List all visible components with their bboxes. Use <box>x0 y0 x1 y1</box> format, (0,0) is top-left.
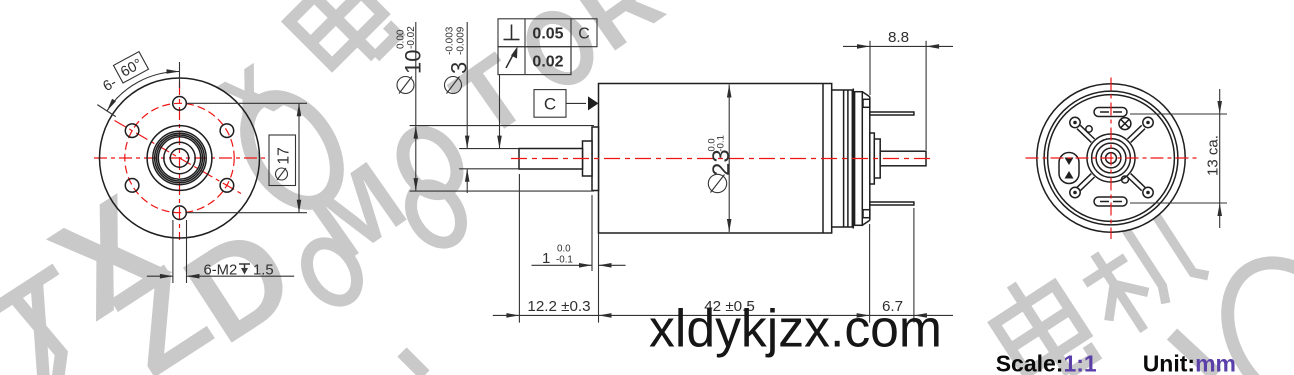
13ca dimension line <box>1219 89 1221 228</box>
hub circle 2 <box>1092 139 1131 178</box>
dia3 dimension line upper <box>466 22 468 149</box>
post NE <box>1143 117 1153 127</box>
dia10 extension top <box>410 125 594 127</box>
post NW <box>1070 117 1080 127</box>
red diagonal line 150deg <box>115 121 245 196</box>
FCF leader <box>499 75 501 149</box>
cap tab top <box>863 99 870 107</box>
top slot <box>1094 108 1127 117</box>
feature control frame <box>498 19 597 75</box>
watermark ring corner bottom-right <box>1202 239 1294 375</box>
watermark bar bottom-right <box>1172 334 1216 375</box>
shaft circle <box>170 149 188 167</box>
dia17 dimension line <box>298 103 300 212</box>
left stadium <box>1059 153 1079 184</box>
dia23 label <box>708 174 726 192</box>
datum leader <box>566 102 586 104</box>
dia17 extension line top <box>187 102 308 104</box>
6-M2 extension line right <box>186 220 188 283</box>
cap band A inner lines <box>843 90 845 227</box>
red bolt circle <box>125 103 234 212</box>
collar rect <box>583 141 593 176</box>
rear boss ring 2 <box>874 139 880 178</box>
svg-text:3: 3 <box>447 62 472 74</box>
svg-text:1.5: 1.5 <box>253 263 274 279</box>
bearing ring outer <box>155 133 205 183</box>
angular dim extension line top <box>179 62 181 88</box>
svg-text:-0.009: -0.009 <box>456 26 467 55</box>
cap band B <box>855 92 863 226</box>
cap thick ring <box>852 89 854 229</box>
bottom dimension line <box>493 314 914 316</box>
flange outer circle <box>100 78 260 238</box>
hole upper-left <box>125 124 139 138</box>
svg-text:-0.02: -0.02 <box>406 26 417 49</box>
svg-text:0.00: 0.00 <box>396 29 407 49</box>
bearing bore circle <box>164 142 195 173</box>
dim 1 extension line <box>591 195 593 271</box>
dia3 extension bottom <box>459 168 519 170</box>
svg-text:1: 1 <box>542 250 550 267</box>
small hole SE <box>1122 176 1129 183</box>
post SE <box>1143 187 1153 197</box>
rim circle 2 <box>1044 91 1178 225</box>
svg-text:23: 23 <box>708 149 735 176</box>
strut NE <box>1077 125 1145 190</box>
hole lower-left <box>125 179 139 193</box>
red crosshair horizontal <box>1026 157 1197 159</box>
hole bottom <box>173 206 187 220</box>
watermark char top (dian-like) <box>273 0 401 82</box>
dim 8.8 extension right <box>925 41 927 150</box>
watermark ring behind dia17 <box>229 81 356 220</box>
dim 1 line left <box>532 264 593 266</box>
bearing ring dark <box>157 135 203 181</box>
terminal pin top <box>870 112 914 115</box>
13ca extension top <box>1130 113 1227 115</box>
hub bore <box>1106 153 1117 164</box>
label 60deg box <box>113 52 148 83</box>
svg-text:-0.1: -0.1 <box>556 255 573 266</box>
svg-text:0.05: 0.05 <box>532 26 563 43</box>
red crosshair vertical <box>1110 78 1112 240</box>
13ca extension bottom <box>1130 202 1227 204</box>
bottom slot <box>1094 197 1127 206</box>
6-M2 dimension line left <box>147 275 173 277</box>
bottom extension line pin tip <box>913 208 915 323</box>
svg-text:C: C <box>544 95 556 114</box>
dim 1 line right <box>599 264 626 266</box>
screw circle <box>1119 118 1131 130</box>
outer circle <box>1037 84 1185 232</box>
datum triangle <box>588 96 599 110</box>
dim 8.8 line <box>843 45 870 47</box>
hub circle 1 <box>1087 134 1135 182</box>
svg-text:10: 10 <box>401 50 426 74</box>
svg-text:13 ca.: 13 ca. <box>1205 135 1222 176</box>
6-M2 extension line left <box>172 220 174 283</box>
body rect <box>599 84 832 234</box>
svg-text:-0.1: -0.1 <box>716 135 727 151</box>
perpendicularity symbol <box>504 25 520 40</box>
svg-text:0.0: 0.0 <box>557 244 571 255</box>
dim 8.8 extension left <box>869 41 871 95</box>
dia10 extension bottom <box>410 190 594 192</box>
dia3 label <box>445 77 462 94</box>
hole lower-right <box>220 179 234 193</box>
hub circle 4 <box>1101 148 1121 168</box>
hole upper-right <box>220 124 234 138</box>
svg-text:xldykjzx.com: xldykjzx.com <box>649 300 942 359</box>
svg-text:C: C <box>578 26 590 43</box>
boss circle 1 <box>147 126 212 191</box>
shaft rect <box>519 149 583 170</box>
hub bearing ring <box>1096 143 1126 173</box>
rim circle 3 <box>1048 95 1175 222</box>
body seam line <box>822 84 824 234</box>
bottom extension line body face <box>598 233 600 323</box>
cap face <box>869 97 871 221</box>
svg-text:17: 17 <box>276 147 293 164</box>
cap chamfer top <box>862 92 870 97</box>
dia10 label <box>397 77 414 94</box>
arc arrow right <box>167 69 180 74</box>
cap band A <box>832 90 853 227</box>
svg-text:8.8: 8.8 <box>888 29 909 46</box>
bearing ring inner <box>158 137 200 179</box>
runout symbol <box>506 47 518 69</box>
svg-text:Scale:1:1: Scale:1:1 <box>996 351 1097 375</box>
boss circle 2 <box>153 131 206 184</box>
terminal pin bottom <box>870 202 914 205</box>
dia3 extension top <box>459 148 519 150</box>
red center horizontal line <box>94 157 266 159</box>
dia17 label text <box>276 168 288 180</box>
dia17 label box <box>269 135 296 186</box>
dia3 dimension line lower <box>466 169 468 193</box>
watermark char dian-like bottom-right <box>982 265 1099 375</box>
dia10 dimension line <box>415 22 417 191</box>
cap chamfer bottom <box>862 220 870 225</box>
bottom extension line cap face <box>869 224 871 323</box>
watermark char wan-like bottom-left <box>0 269 115 375</box>
svg-text:0.02: 0.02 <box>532 53 563 70</box>
6-M2 dimension line right <box>187 275 295 277</box>
svg-text:12.2 ±0.3: 12.2 ±0.3 <box>527 298 590 315</box>
angular dim arc <box>107 72 180 111</box>
rear shaft stub <box>880 151 926 166</box>
watermark char ji-like right <box>1064 193 1214 344</box>
svg-text:Unit:mm: Unit:mm <box>1143 351 1236 375</box>
dia23 dimension line <box>728 85 730 233</box>
datum C box <box>534 90 566 118</box>
bottom extension line shaft tip <box>518 174 520 323</box>
small hole NW <box>1086 126 1092 132</box>
cap tab bottom <box>863 210 870 218</box>
red center vertical line <box>179 82 181 240</box>
red centerline <box>511 158 934 160</box>
radial tick at 147deg <box>97 105 115 117</box>
rear boss ring 1 <box>870 133 875 184</box>
watermark small bar bottom <box>402 352 425 375</box>
svg-text:-0.003: -0.003 <box>445 26 456 55</box>
svg-text:6-M2: 6-M2 <box>204 263 238 279</box>
dia17 extension line bottom <box>187 212 308 214</box>
front boss rect <box>592 127 599 191</box>
arc arrow left <box>105 99 116 112</box>
post SW <box>1070 187 1080 197</box>
hole top <box>173 97 187 111</box>
